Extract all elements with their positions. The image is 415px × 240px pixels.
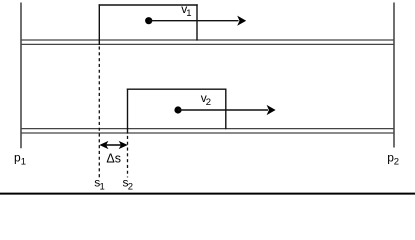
top track upper rail [21,39,394,41]
block 2 left edge (extends through rails to s2) [127,89,129,134]
block 2 right edge [225,89,227,130]
block 1 (upper cart): top edge [99,4,198,6]
svg-text:1: 1 [186,8,191,19]
dot on block 2 [174,106,181,113]
svg-text:Δs: Δs [106,152,121,166]
svg-text:2: 2 [206,97,211,108]
ground line (bottom border) [0,193,415,195]
svg-text:1: 1 [100,182,105,193]
wall p1 (left vertical line) [20,3,22,149]
svg-text:1: 1 [21,157,26,168]
velocity arrow v2 [178,105,276,115]
svg-text:2: 2 [128,182,133,193]
wall p2 (right vertical line) [393,3,395,148]
block 1 right edge [196,4,198,40]
velocity arrow v1 [149,16,247,26]
bottom track upper rail [21,128,394,130]
dashed line s1 [98,47,100,178]
svg-text:2: 2 [394,157,399,168]
top track lower rail [21,43,394,45]
dashed line s2 [127,136,129,178]
delta-s double arrow [99,141,127,149]
bottom track lower rail [21,132,394,134]
block 1 left edge (extends through rails to s1) [98,4,100,45]
dot on block 1 [145,17,152,24]
block 2 (lower cart): top edge [127,88,227,90]
